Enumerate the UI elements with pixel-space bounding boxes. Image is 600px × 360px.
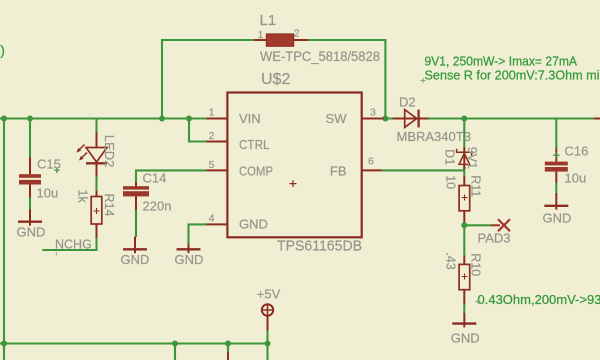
pin 3 SW stub: [362, 118, 384, 120]
resistor R11: [459, 176, 470, 223]
pin 1 VIN stub: [207, 118, 228, 120]
note 3 origin cross: [476, 299, 481, 304]
wire: SW output net to right edge: [384, 117, 596, 119]
net label NCHG origin tick: [55, 252, 57, 256]
svg-text:1: 1: [258, 29, 264, 41]
wire: branch to pin 2 CTRL: [189, 119, 207, 142]
LED2 emission arrows: [79, 145, 85, 151]
svg-text:GND: GND: [451, 330, 480, 345]
node: bottom rail a: [172, 341, 178, 347]
svg-text:C16: C16: [565, 143, 589, 158]
wire: drop to D1 cathode: [463, 119, 465, 148]
svg-text:PAD3: PAD3: [478, 231, 511, 246]
node: CTRL branch / top net: [186, 116, 192, 122]
svg-text:R11: R11: [469, 175, 483, 197]
svg-text:4: 4: [209, 213, 215, 225]
svg-text:1: 1: [209, 107, 215, 119]
IC U$2 origin cross: [290, 180, 297, 187]
wire: C16 lower link: [555, 183, 557, 194]
svg-text:TPS61165DB: TPS61165DB: [277, 238, 362, 255]
node: bottom rail b: [225, 341, 231, 347]
svg-text:SW: SW: [326, 111, 348, 126]
wire: C14 lower link: [135, 209, 137, 237]
ground symbol (C14): [123, 237, 147, 254]
svg-text:D1: D1: [443, 149, 457, 165]
wire: R10 lower link: [463, 304, 465, 314]
svg-text:): ): [0, 42, 5, 58]
wire: L1 pin 2 to SW node: [308, 40, 386, 119]
svg-text:+5V: +5V: [257, 287, 281, 302]
wire: node to PAD3: [464, 224, 491, 226]
pin 4 GND stub: [207, 223, 228, 225]
ground symbol (C16): [544, 193, 568, 210]
node: D2 cathode / D1: [461, 116, 467, 122]
svg-text:GND: GND: [121, 252, 150, 267]
svg-text:Sense R for 200mV:7.3Ohm min: Sense R for 200mV:7.3Ohm min: [425, 69, 600, 83]
svg-text:VIN: VIN: [239, 111, 261, 126]
wire: bottom rail y=343.5: [0, 342, 268, 344]
capacitor C14: [123, 182, 149, 210]
wire: stub tip at right edge: [594, 118, 600, 120]
svg-text:GND: GND: [543, 210, 572, 225]
svg-text:10u: 10u: [37, 185, 59, 200]
svg-text:9V1: 9V1: [465, 147, 479, 169]
capacitor C15: [19, 157, 41, 198]
capacitor C16: [545, 149, 568, 183]
svg-text:2: 2: [209, 130, 215, 142]
node: L1 riser / top net: [159, 116, 165, 122]
wire: R14 to NCHG stub: [42, 237, 96, 250]
wire: bottom drop b red pin tip: [227, 353, 229, 360]
wire: LED2 cathode to R14: [95, 176, 97, 190]
wire: FB net: [382, 169, 465, 171]
wire: LED2 drop: [95, 119, 97, 133]
svg-text:L1: L1: [260, 12, 277, 29]
svg-text:6: 6: [368, 156, 374, 168]
node: C15 / top net: [27, 116, 33, 122]
resistor R10: [459, 256, 470, 305]
svg-text:10u: 10u: [565, 171, 587, 186]
svg-text:U$2: U$2: [261, 71, 290, 88]
svg-text:220n: 220n: [143, 199, 172, 214]
svg-text:GND: GND: [17, 224, 46, 239]
svg-text:.43: .43: [443, 252, 457, 269]
wire: C16 drop: [555, 119, 557, 150]
svg-text:9V1, 250mW-> Imax= 27mA: 9V1, 250mW-> Imax= 27mA: [425, 54, 578, 68]
svg-text:10: 10: [443, 175, 457, 189]
svg-text:GND: GND: [175, 252, 204, 267]
svg-text:NCHG: NCHG: [55, 238, 92, 252]
node: left rail / top net: [1, 116, 7, 122]
svg-text:D2: D2: [399, 95, 416, 110]
IC U$2 body: [227, 93, 361, 238]
svg-text:R14: R14: [102, 194, 116, 217]
wire: bottom drop c under +5V: [266, 344, 268, 360]
wire: COMP net to C14: [136, 170, 207, 182]
wire: C15 lower link: [29, 197, 31, 209]
svg-text:5: 5: [209, 159, 215, 171]
inductor L1: [254, 34, 308, 46]
+5V supply symbol: [262, 304, 273, 330]
node: bottom rail / +5V: [265, 341, 271, 347]
svg-text:FB: FB: [330, 163, 347, 178]
svg-text:GND: GND: [239, 216, 268, 231]
svg-text:2: 2: [294, 28, 300, 40]
wire: R11 to R10 / PAD3 node: [463, 222, 465, 255]
C15 polarity +: [54, 167, 60, 173]
PAD3 cross: [491, 219, 510, 231]
ground symbol (C15): [18, 209, 42, 226]
svg-text:C15: C15: [37, 157, 61, 172]
wire: C15 drop: [29, 119, 31, 158]
svg-text:CTRL: CTRL: [239, 137, 270, 152]
pin 2 CTRL stub: [207, 141, 228, 143]
C16 polarity +: [553, 152, 560, 159]
diode D2: [393, 110, 429, 128]
svg-text:3: 3: [370, 107, 376, 119]
note origin cross: [421, 78, 426, 83]
svg-text:C14: C14: [143, 171, 167, 186]
LED LED2: [77, 132, 108, 177]
wire: bottom drop b: [227, 344, 229, 354]
wire: D1 anode to R11 / FB joint: [463, 169, 465, 176]
wire: pin4 GND net: [189, 224, 207, 243]
node: R11 / R10 / PAD3: [461, 222, 467, 228]
resistor R14: [91, 191, 102, 238]
svg-text:1k: 1k: [76, 190, 90, 204]
zener diode D1: [457, 147, 472, 169]
wire: left vertical rail x=4: [3, 119, 5, 360]
wire: +5V stub green part: [266, 330, 268, 344]
ground symbol (U$2 pin 4): [177, 244, 201, 254]
wire: riser to L1 pin 1: [162, 40, 254, 119]
node: SW / L1 return: [382, 116, 388, 122]
ground symbol (R10): [452, 313, 476, 327]
svg-text:0.43Ohm,200mV->93mV: 0.43Ohm,200mV->93mV: [478, 292, 600, 307]
svg-text:MBRA340T3: MBRA340T3: [397, 129, 471, 144]
pin 6 FB stub: [362, 169, 382, 171]
wire: bottom drop a: [174, 344, 176, 360]
node: left rail / bottom rail: [1, 341, 7, 347]
wire: top net left section y=118.5: [0, 117, 207, 119]
svg-text:LED2: LED2: [102, 135, 117, 168]
svg-text:COMP: COMP: [239, 163, 273, 178]
svg-text:WE-TPC_5818/5828: WE-TPC_5818/5828: [260, 48, 380, 64]
svg-text:R10: R10: [469, 253, 483, 276]
pin 5 COMP stub: [207, 169, 228, 171]
op-amp/IC U$2 pin stubs: [207, 119, 384, 225]
